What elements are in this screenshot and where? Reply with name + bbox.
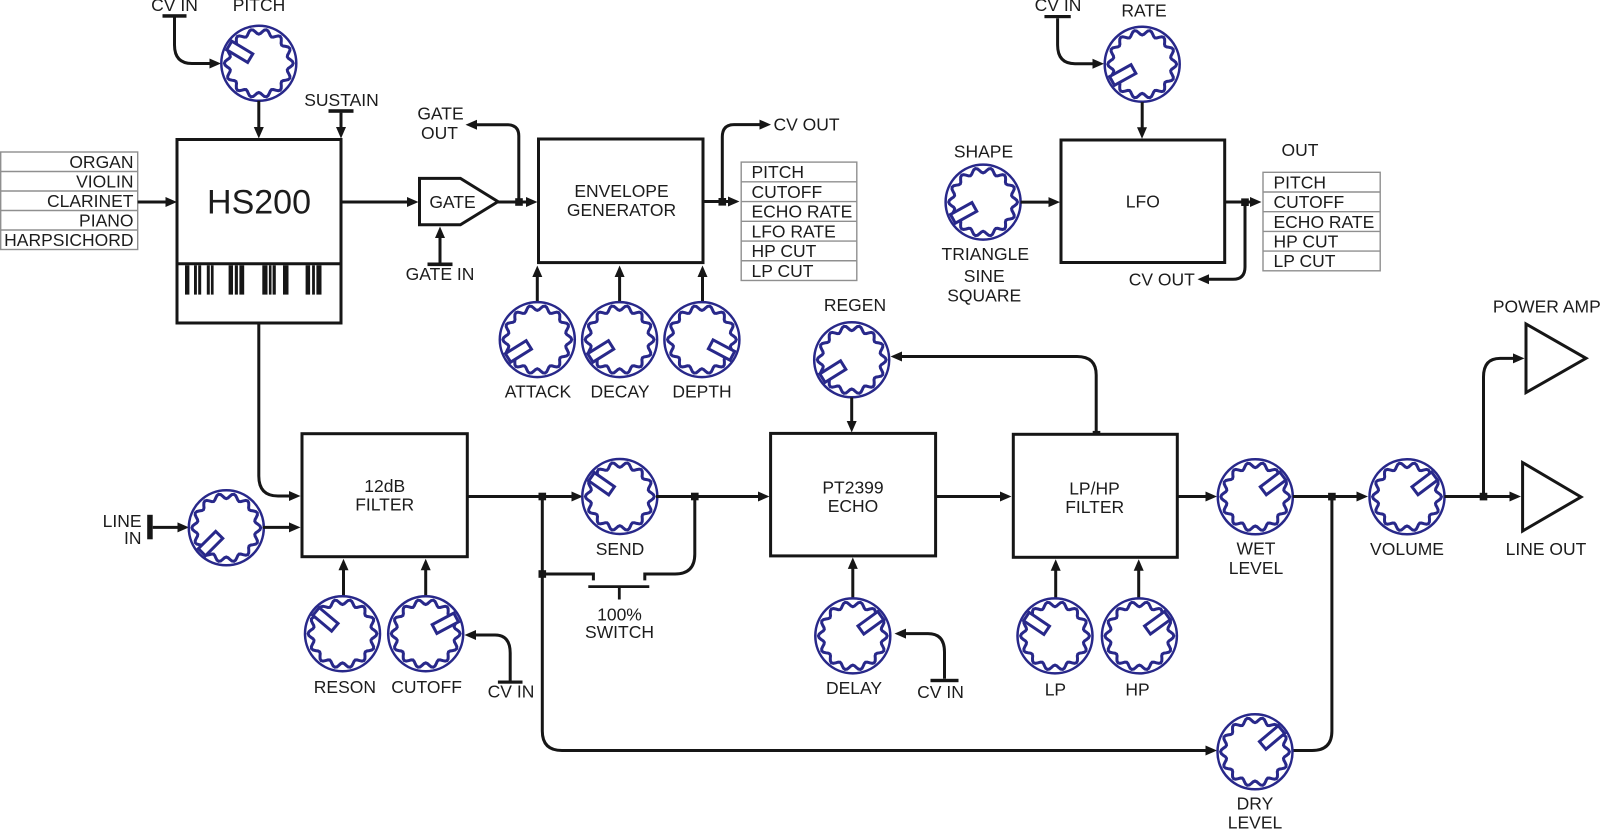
wire SHAPE knob to LFO bbox=[1021, 201, 1050, 204]
svg-text:HP CUT: HP CUT bbox=[1274, 231, 1339, 251]
knob CUTOFF bbox=[388, 596, 463, 671]
knob WET LEVEL bbox=[1218, 459, 1293, 534]
svg-text:POWER AMP: POWER AMP bbox=[1493, 297, 1600, 317]
svg-text:ECHO: ECHO bbox=[828, 496, 879, 516]
switch left contact bbox=[542, 574, 593, 580]
svg-text:CV OUT: CV OUT bbox=[774, 114, 840, 134]
wire CUTOFF to 12dB FILTER bbox=[424, 569, 427, 596]
wire DECAY to ENVELOPE GENERATOR bbox=[618, 276, 621, 302]
wire CV OUT branch (LFO) bbox=[1208, 205, 1245, 279]
wire switch right contact from echo junction bbox=[645, 497, 695, 581]
svg-text:PITCH: PITCH bbox=[752, 162, 805, 182]
svg-text:CV IN: CV IN bbox=[488, 682, 535, 702]
svg-text:CV OUT: CV OUT bbox=[1129, 269, 1195, 289]
block 12dB FILTER bbox=[302, 434, 467, 557]
svg-text:OUT: OUT bbox=[1282, 140, 1319, 160]
junction after GATE bbox=[515, 198, 523, 206]
svg-text:LP CUT: LP CUT bbox=[752, 261, 814, 281]
svg-text:ATTACK: ATTACK bbox=[505, 381, 572, 401]
knob ATTACK bbox=[500, 302, 575, 377]
junction wet/dry merge bbox=[1328, 493, 1336, 501]
wire PT2399 ECHO to LP/HP FILTER bbox=[936, 495, 1001, 498]
svg-text:HS200: HS200 bbox=[207, 184, 311, 222]
wire LP/HP FILTER to WET LEVEL knob bbox=[1177, 495, 1207, 498]
knob LINE IN LEVEL bbox=[189, 490, 264, 565]
wire CV IN to PITCH knob bbox=[175, 17, 214, 63]
knob LP bbox=[1018, 598, 1093, 673]
svg-text:LFO RATE: LFO RATE bbox=[752, 221, 836, 241]
knob RESON bbox=[305, 596, 380, 671]
svg-text:GATE IN: GATE IN bbox=[406, 264, 475, 284]
amp triangle POWER AMP bbox=[1526, 324, 1586, 393]
wire RESON to 12dB FILTER bbox=[342, 569, 345, 596]
wire input knob to 12dB FILTER bbox=[263, 526, 290, 529]
svg-text:SUSTAIN: SUSTAIN bbox=[304, 90, 379, 110]
wire REGEN knob to PT2399 ECHO bbox=[850, 397, 853, 423]
terminal CV IN (cutoff) bbox=[498, 681, 523, 684]
junction LP/HP top bbox=[1093, 431, 1101, 439]
gate pentagon GATE bbox=[420, 178, 499, 224]
svg-text:SEND: SEND bbox=[596, 539, 645, 559]
knob VOLUME bbox=[1370, 459, 1445, 534]
piano keys bbox=[185, 265, 322, 294]
wire GATE IN to GATE bbox=[439, 236, 442, 263]
svg-text:DECAY: DECAY bbox=[591, 381, 650, 401]
svg-text:REGEN: REGEN bbox=[824, 295, 886, 315]
wire feedback to REGEN knob bbox=[901, 357, 1096, 432]
junction after ENVELOPE GENERATOR bbox=[719, 198, 727, 206]
svg-text:RESON: RESON bbox=[314, 677, 376, 697]
svg-text:LP: LP bbox=[1045, 679, 1066, 699]
svg-text:PITCH: PITCH bbox=[1274, 172, 1327, 192]
wire DEPTH to ENVELOPE GENERATOR bbox=[701, 276, 704, 302]
svg-text:GENERATOR: GENERATOR bbox=[567, 200, 676, 220]
knob DEPTH bbox=[664, 302, 739, 377]
svg-text:GATE: GATE bbox=[429, 192, 475, 212]
svg-text:CV IN: CV IN bbox=[917, 682, 964, 702]
knob RATE bbox=[1105, 27, 1180, 102]
LFO CV destination list bbox=[1263, 172, 1380, 270]
knob HP bbox=[1102, 598, 1177, 673]
wire LP to LP/HP FILTER bbox=[1054, 569, 1057, 598]
wire HS200 to 12dB FILTER bbox=[259, 323, 290, 496]
svg-text:LFO: LFO bbox=[1126, 192, 1160, 212]
svg-text:DEPTH: DEPTH bbox=[672, 381, 731, 401]
amp triangle LINE OUT bbox=[1523, 463, 1581, 531]
knob PITCH bbox=[221, 26, 296, 101]
wire RATE knob to LFO bbox=[1141, 102, 1144, 129]
svg-text:SWITCH: SWITCH bbox=[585, 622, 654, 642]
svg-text:VOLUME: VOLUME bbox=[1370, 539, 1444, 559]
wire 12dB FILTER to SEND knob bbox=[467, 495, 573, 498]
svg-text:ECHO RATE: ECHO RATE bbox=[752, 202, 853, 222]
wire CV IN to RATE knob bbox=[1058, 18, 1096, 64]
sound list (ORGAN/VIOLIN/CLARINET/PIANO/HARPSICHORD) bbox=[1, 152, 138, 250]
svg-text:LP CUT: LP CUT bbox=[1274, 251, 1336, 271]
svg-text:PT2399: PT2399 bbox=[822, 478, 883, 498]
block LFO bbox=[1061, 140, 1225, 263]
wire to POWER AMP bbox=[1484, 358, 1515, 496]
svg-text:ECHO RATE: ECHO RATE bbox=[1274, 212, 1375, 232]
wire ENVELOPE GENERATOR to CV list bbox=[703, 200, 729, 203]
svg-text:PIANO: PIANO bbox=[79, 210, 133, 230]
keyboard divider bbox=[177, 262, 341, 265]
knob DELAY bbox=[815, 598, 890, 673]
terminal CV IN (delay) bbox=[931, 679, 959, 682]
svg-text:CV IN: CV IN bbox=[151, 0, 198, 15]
wire SUSTAIN to HS200 bbox=[340, 113, 343, 129]
svg-text:TRIANGLE: TRIANGLE bbox=[942, 244, 1030, 264]
terminal GATE IN bbox=[428, 263, 453, 267]
junction switch tap bbox=[539, 570, 547, 578]
svg-text:LP/HP: LP/HP bbox=[1069, 479, 1120, 499]
svg-text:WET: WET bbox=[1237, 538, 1276, 558]
svg-text:CUTOFF: CUTOFF bbox=[391, 677, 462, 697]
svg-text:12dB: 12dB bbox=[364, 476, 405, 496]
svg-text:ENVELOPE: ENVELOPE bbox=[574, 181, 668, 201]
knob SEND bbox=[582, 459, 657, 534]
wire CV IN to DELAY knob bbox=[905, 634, 945, 679]
switch plate 100% SWITCH bbox=[588, 585, 649, 588]
svg-text:LEVEL: LEVEL bbox=[1229, 558, 1284, 578]
knob REGEN bbox=[814, 322, 889, 397]
block ENVELOPE GENERATOR bbox=[539, 139, 704, 263]
wire GATE OUT branch bbox=[477, 125, 519, 199]
svg-text:FILTER: FILTER bbox=[1065, 497, 1124, 517]
wire DELAY to PT2399 ECHO bbox=[851, 568, 854, 598]
junction after LFO bbox=[1241, 198, 1249, 206]
svg-text:SQUARE: SQUARE bbox=[947, 286, 1021, 306]
svg-text:PITCH: PITCH bbox=[233, 0, 286, 15]
svg-text:DELAY: DELAY bbox=[826, 678, 882, 698]
envelope CV destination list bbox=[741, 162, 857, 280]
svg-text:CLARINET: CLARINET bbox=[47, 191, 134, 211]
junction send/dry split bbox=[539, 493, 547, 501]
svg-text:GATE: GATE bbox=[417, 103, 463, 123]
wire GATE to ENVELOPE GENERATOR bbox=[498, 201, 527, 204]
svg-text:RATE: RATE bbox=[1121, 0, 1166, 20]
wire VOLUME knob to LINE OUT bbox=[1445, 495, 1512, 498]
svg-text:FILTER: FILTER bbox=[355, 494, 414, 514]
svg-text:SINE: SINE bbox=[964, 266, 1005, 286]
wire CV OUT branch (envelope) bbox=[722, 125, 760, 199]
svg-text:LEVEL: LEVEL bbox=[1228, 813, 1283, 829]
knob DRY LEVEL bbox=[1218, 714, 1293, 789]
wire sound list to HS200 bbox=[138, 201, 166, 204]
svg-text:CUTOFF: CUTOFF bbox=[752, 182, 823, 202]
junction power amp branch bbox=[1480, 493, 1488, 501]
wire DRY LEVEL knob up to merge junction bbox=[1293, 500, 1332, 751]
block PT2399 ECHO bbox=[771, 433, 936, 556]
svg-text:OUT: OUT bbox=[421, 123, 458, 143]
svg-text:VIOLIN: VIOLIN bbox=[76, 171, 133, 191]
wire LFO to OUT list bbox=[1225, 201, 1252, 204]
wire CV IN to CUTOFF knob bbox=[475, 635, 510, 681]
svg-text:CUTOFF: CUTOFF bbox=[1274, 192, 1345, 212]
wire HP to LP/HP FILTER bbox=[1137, 569, 1140, 598]
wire ATTACK to ENVELOPE GENERATOR bbox=[536, 276, 539, 302]
svg-text:ORGAN: ORGAN bbox=[69, 152, 133, 172]
junction echo send/switch bbox=[691, 493, 699, 501]
svg-text:LINE OUT: LINE OUT bbox=[1506, 539, 1587, 559]
wire LINE IN to input knob bbox=[153, 526, 179, 529]
svg-text:IN: IN bbox=[124, 528, 142, 548]
block LP/HP FILTER bbox=[1013, 434, 1177, 557]
svg-text:HARPSICHORD: HARPSICHORD bbox=[4, 230, 133, 250]
knob DECAY bbox=[582, 302, 657, 377]
svg-text:CV IN: CV IN bbox=[1035, 0, 1082, 15]
svg-text:HP CUT: HP CUT bbox=[752, 241, 817, 261]
wire HS200 to GATE bbox=[341, 201, 408, 204]
wire dry path down and to DRY LEVEL knob bbox=[542, 497, 1207, 751]
wire SEND knob to PT2399 ECHO bbox=[656, 495, 759, 498]
wire PITCH knob to HS200 bbox=[257, 101, 260, 129]
block HS200 bbox=[177, 140, 341, 324]
svg-text:SHAPE: SHAPE bbox=[954, 141, 1013, 161]
wire WET LEVEL knob to VOLUME knob bbox=[1293, 495, 1358, 498]
svg-text:HP: HP bbox=[1125, 679, 1149, 699]
svg-text:DRY: DRY bbox=[1237, 794, 1274, 814]
knob SHAPE bbox=[946, 165, 1021, 240]
